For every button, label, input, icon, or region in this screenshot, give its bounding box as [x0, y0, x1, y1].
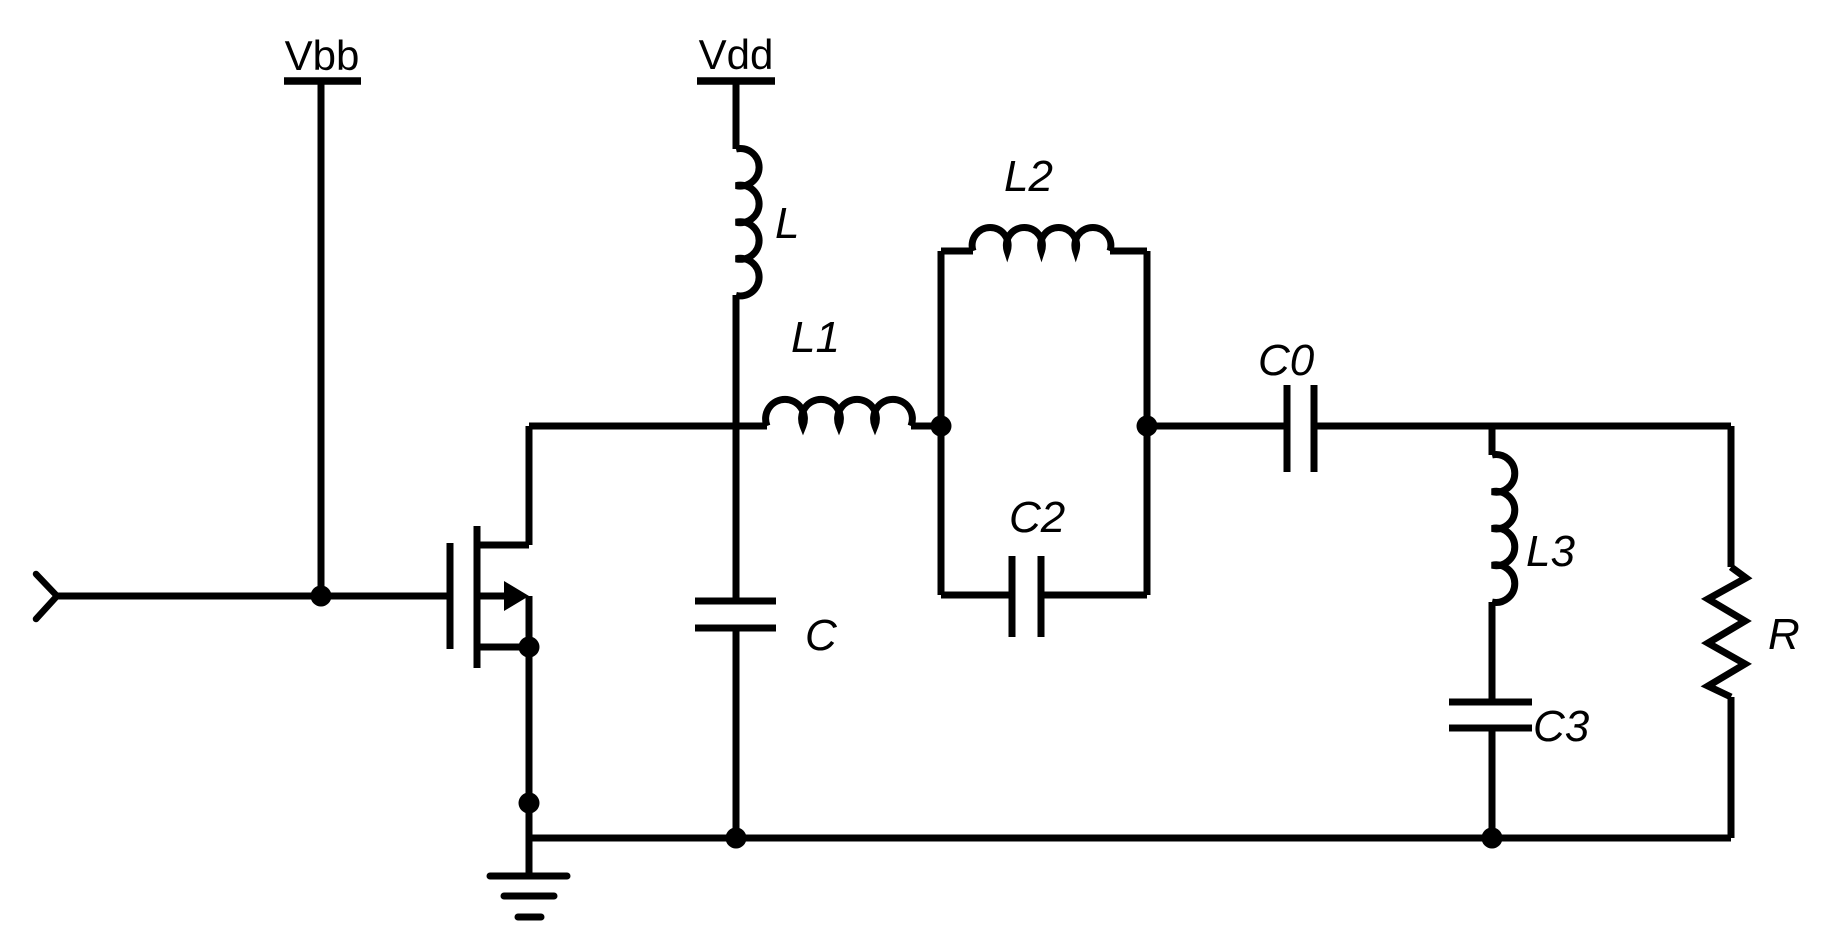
wire tank top left	[941, 248, 973, 255]
svg-text:L1: L1	[791, 313, 840, 362]
wire R bottom	[1728, 697, 1735, 838]
node dot source/bulk	[519, 637, 540, 658]
resistor R	[1708, 567, 1746, 697]
ground	[490, 876, 567, 917]
capacitor C3	[1449, 702, 1532, 728]
svg-text:C3: C3	[1533, 702, 1590, 751]
inductor L3	[1492, 455, 1515, 603]
wire L3 to C3	[1489, 602, 1496, 702]
wire tank to C0	[1147, 423, 1287, 430]
wire L to capacitor C	[733, 295, 740, 601]
wire C3 to rail	[1489, 728, 1496, 838]
wire L1 to tank	[911, 423, 941, 430]
svg-text:Vdd: Vdd	[699, 31, 774, 78]
inductor L2	[972, 227, 1111, 251]
capacitor C	[695, 601, 776, 628]
wire ground stub	[526, 838, 533, 873]
node dot tank left	[931, 416, 952, 437]
node dot tank right	[1137, 416, 1158, 437]
wire ground rail	[529, 835, 1731, 842]
node dot C3/rail	[1482, 828, 1503, 849]
svg-text:L2: L2	[1004, 152, 1053, 201]
wire tank right vertical	[1144, 251, 1151, 595]
svg-text:C: C	[805, 611, 838, 660]
node dot source lower	[519, 793, 540, 814]
capacitor C2	[1012, 556, 1041, 637]
wire L3 top	[1489, 426, 1496, 455]
wire R top	[1728, 426, 1735, 567]
node dot C/rail	[726, 828, 747, 849]
svg-text:L3: L3	[1526, 527, 1575, 576]
Vbb supply bar	[284, 77, 361, 85]
inductor L1	[766, 399, 913, 426]
wire Vbb to gate line	[318, 81, 325, 596]
Vdd supply bar	[697, 77, 775, 85]
wire input to gate	[56, 593, 447, 600]
svg-text:C2: C2	[1009, 493, 1065, 542]
transistor M1 (NMOS)	[450, 426, 529, 838]
svg-text:Vbb: Vbb	[285, 32, 360, 79]
input port arrow	[36, 574, 57, 619]
wire C to ground rail	[733, 628, 740, 838]
wire tank top right	[1110, 248, 1147, 255]
svg-text:C0: C0	[1258, 336, 1315, 385]
svg-text:L: L	[775, 199, 799, 248]
wire Vdd to L	[733, 81, 740, 149]
wire drain node horizontal	[529, 423, 767, 430]
capacitor C0	[1287, 385, 1314, 472]
wire tank bottom left	[941, 592, 1012, 599]
inductor L	[736, 149, 759, 296]
wire tank left vertical	[938, 251, 945, 595]
wire C0 to load	[1314, 423, 1731, 430]
svg-text:R: R	[1768, 610, 1800, 659]
node dot Vbb/gate junction	[311, 586, 332, 607]
wire tank bottom right	[1041, 592, 1147, 599]
